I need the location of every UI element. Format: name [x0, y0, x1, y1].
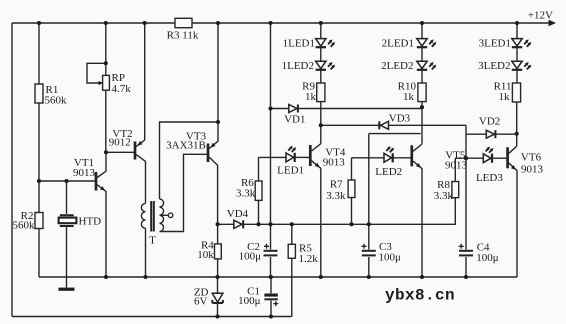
svg-text:1k: 1k [499, 91, 511, 103]
diode VD1 [271, 105, 423, 126]
svg-text:3LED2: 3LED2 [478, 60, 510, 72]
wire LED3 cathode to VT6 base [492, 157, 506, 159]
resistor R6 [236, 157, 262, 224]
resistor R1 [35, 23, 67, 213]
svg-text:9013: 9013 [521, 164, 544, 176]
svg-text:T: T [149, 235, 156, 247]
svg-text:1k: 1k [403, 91, 415, 103]
zener ZD [194, 277, 223, 317]
LED 1LED2 [282, 48, 335, 72]
LED 2LED2 [381, 48, 436, 72]
watermark ybx8.cn [385, 287, 455, 305]
wire R11 to VT6 collector [516, 102, 518, 146]
wire VT1 base node [39, 180, 95, 182]
wire +12V top rail [12, 20, 556, 26]
wire VT2 base [106, 151, 134, 153]
svg-text:3.3k: 3.3k [434, 190, 454, 202]
wire VD4 net [218, 223, 456, 225]
capacitor C4 [459, 125, 499, 277]
svg-text:1.2k: 1.2k [299, 253, 319, 265]
transistor VT6 [508, 146, 544, 277]
wire transformer secondary bottom to VT3 base [160, 154, 208, 231]
svg-text:VD4: VD4 [227, 208, 249, 220]
LED LED1 [277, 146, 304, 177]
svg-text:LED2: LED2 [375, 166, 402, 178]
wire bottom rail [12, 316, 292, 318]
resistor R4 [197, 239, 221, 277]
svg-text:R3 11k: R3 11k [167, 29, 199, 41]
LED 2LED1 [382, 23, 437, 49]
LED LED2 [375, 146, 402, 178]
diode VD4 [227, 208, 249, 228]
resistor R7 [326, 158, 355, 225]
svg-text:1k: 1k [305, 91, 317, 103]
svg-text:HTD: HTD [79, 216, 102, 228]
transistor VT4 [310, 144, 346, 277]
potentiometer RP [87, 23, 131, 152]
ground [59, 277, 75, 291]
svg-text:9013: 9013 [323, 156, 346, 168]
wire transformer secondary top to node [160, 122, 219, 199]
svg-text:100μ: 100μ [476, 252, 499, 264]
svg-text:9013: 9013 [73, 167, 96, 179]
svg-text:VT6: VT6 [521, 151, 542, 163]
svg-text:LED3: LED3 [476, 172, 503, 184]
svg-text:VD1: VD1 [284, 113, 305, 125]
resistor R9 [302, 70, 325, 102]
wire LED3 anode to R8 [455, 157, 483, 159]
LED LED3 [476, 147, 503, 185]
piezo HTD [59, 181, 102, 277]
svg-text:1LED2: 1LED2 [282, 60, 314, 72]
svg-text:560k: 560k [45, 95, 68, 107]
wire left border (+12V to bottom rail) [11, 23, 13, 317]
transformer center tap [160, 213, 173, 218]
svg-text:3LED1: 3LED1 [479, 37, 511, 49]
svg-text:3.3k: 3.3k [236, 187, 256, 199]
transformer T [141, 199, 163, 277]
svg-text:100μ: 100μ [238, 295, 261, 307]
svg-text:9013: 9013 [445, 160, 468, 172]
wire VT5 collector to C3 branch [369, 133, 421, 135]
resistor R10 [398, 70, 426, 102]
node +12V label [528, 10, 553, 22]
LED 1LED1 [283, 23, 335, 49]
wire ground rail [39, 276, 517, 278]
resistor R8 [434, 158, 459, 224]
svg-text:1LED1: 1LED1 [283, 37, 315, 49]
capacitor C2 [239, 23, 278, 277]
transistor VT2 [109, 23, 146, 203]
svg-text:3AX31B: 3AX31B [166, 140, 206, 152]
wire R10 to VT5 collector [421, 102, 423, 144]
capacitor C1 [238, 277, 278, 317]
resistor R11 [494, 70, 521, 102]
svg-text:LED1: LED1 [277, 165, 304, 177]
svg-text:9012: 9012 [109, 137, 131, 149]
wire LED2 cathode to VT5 base [393, 157, 411, 159]
LED 3LED1 [479, 23, 532, 49]
diode VD2 [466, 116, 517, 139]
resistor R2 [13, 210, 44, 277]
svg-text:R7: R7 [330, 178, 343, 190]
svg-text:6V: 6V [194, 296, 208, 308]
svg-text:2LED2: 2LED2 [381, 60, 413, 72]
diode VD3 [321, 113, 466, 130]
svg-text:100μ: 100μ [379, 251, 402, 263]
wire LED2 anode to R7 [352, 157, 385, 159]
LED 3LED2 [478, 48, 531, 72]
svg-text:VD2: VD2 [479, 116, 500, 128]
svg-text:100μ: 100μ [239, 250, 262, 262]
svg-text:10k: 10k [197, 249, 214, 261]
transistor VT5 [412, 144, 468, 277]
capacitor C3 [362, 134, 402, 277]
wire R9 to VT4 collector [320, 102, 322, 144]
svg-text:VD3: VD3 [389, 113, 411, 125]
svg-text:3.3k: 3.3k [326, 190, 346, 202]
wire LED1 anode to R6 [259, 156, 287, 158]
resistor R5 [288, 224, 318, 316]
transistor VT1 [73, 152, 106, 277]
svg-text:2LED1: 2LED1 [382, 37, 414, 49]
svg-text:ybx8.cn: ybx8.cn [385, 287, 455, 305]
svg-text:560k: 560k [13, 220, 36, 232]
wire R4 top [217, 224, 219, 244]
svg-text:4.7k: 4.7k [112, 83, 132, 95]
wire LED1 cathode to VT4 base [295, 156, 309, 158]
resistor R3 [167, 18, 199, 41]
svg-text:+12V: +12V [528, 10, 553, 22]
transistor VT3 [166, 23, 218, 224]
